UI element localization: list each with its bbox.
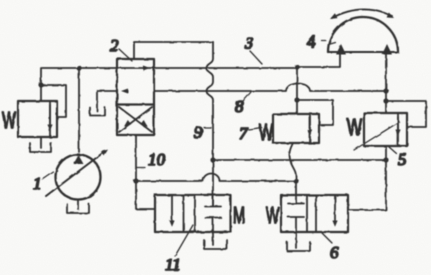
valve 5 inner vane xyxy=(397,113,399,146)
valve 6 inner divider b xyxy=(315,195,317,232)
wire: dome right down to valve 5 xyxy=(385,54,387,113)
valve 11 inner divider b xyxy=(194,195,196,232)
valve 5 arrow xyxy=(397,117,399,130)
valve 7 body xyxy=(273,114,319,143)
wire: relief valve W1 branch down xyxy=(40,68,42,101)
wire: control line y160 xyxy=(213,159,386,161)
tank under valve 11 xyxy=(204,240,227,249)
valve 11 closed port top T xyxy=(205,195,221,207)
label 6 leader xyxy=(322,233,332,243)
rotary actuator base line xyxy=(328,51,398,53)
wire: pump supply line 3 left segment with hop over vertical 213 xyxy=(42,67,297,69)
valve 2 body xyxy=(117,59,154,135)
wire: vertical to valve 7 xyxy=(296,67,298,114)
wire: valve 5 outlet down xyxy=(385,146,387,160)
oscillation double arrow xyxy=(332,9,392,18)
node junction x213 y160 xyxy=(210,157,215,162)
rotary actuator 4 dome xyxy=(328,17,398,52)
wire: pump drain to tank xyxy=(77,200,79,210)
wire: W1 drain xyxy=(40,137,42,148)
wire: to valve 11 left port xyxy=(136,181,155,209)
wire: line 3 to dome left xyxy=(297,54,340,67)
valve 5 body xyxy=(364,113,407,146)
label 7 leader xyxy=(249,128,262,130)
wire: line 8 to drain tank xyxy=(97,91,117,111)
valve 11 inner divider a xyxy=(183,195,185,232)
pump variable displacement arrow xyxy=(46,152,104,196)
valve 2 cross arrows xyxy=(119,107,152,132)
relief valve W1 body xyxy=(18,101,57,137)
node junction W1 pilot tee xyxy=(38,82,43,87)
node junction valve 7 pilot xyxy=(294,97,299,102)
valve 6 closed port top T xyxy=(288,181,304,204)
node junction pump tee xyxy=(76,65,81,70)
label 3 leader xyxy=(250,51,262,64)
valve 11 arrow xyxy=(171,195,173,220)
tank under valve 6 xyxy=(287,242,310,251)
wire: valve 5 pilot loop xyxy=(386,101,426,127)
tank drain of valve 2 xyxy=(90,108,105,116)
node junction valve 6 inlet xyxy=(293,178,298,183)
wire: W1 pilot line xyxy=(41,85,66,117)
relief valve W1 arrow down xyxy=(49,105,51,124)
node junction line 8 right xyxy=(383,88,388,93)
valve 2 arrow right on line 3 xyxy=(143,66,150,71)
wire: pump to line 3 xyxy=(78,68,80,152)
label 8 leader xyxy=(243,92,251,101)
valve 7 arrow xyxy=(309,117,311,130)
wire: valve 2 outlet down line 10 xyxy=(135,135,137,181)
label 9 leader xyxy=(204,127,211,129)
valve 11 closed port bottom T xyxy=(205,218,221,233)
label 2 leader xyxy=(119,49,132,61)
node junction valve 5 pilot xyxy=(383,98,388,103)
wire: valve 7 pilot loop xyxy=(297,100,333,125)
valve 7 inner vane xyxy=(309,114,311,143)
label 10 leader xyxy=(137,167,146,169)
valve 6 inner divider a xyxy=(306,195,308,232)
wire: valve 6 pilot from y160 xyxy=(348,160,386,210)
valve 5 adjust diagonal xyxy=(354,122,399,150)
dome left port triangle xyxy=(336,44,346,55)
wire: vertical control line x213 xyxy=(207,42,214,206)
valve 6 closed port bottom T xyxy=(288,217,304,232)
wire: valve 11 drain xyxy=(212,232,214,245)
valve 6 body xyxy=(281,195,348,232)
relief valve W1 inner vane xyxy=(49,101,51,137)
label 5 leader xyxy=(389,147,396,153)
tank under pump xyxy=(67,204,89,213)
wire: line y181 with hop xyxy=(136,174,296,181)
label 1 leader xyxy=(42,172,53,180)
wire: valve 2 pilot top xyxy=(134,42,213,59)
dome right port triangle xyxy=(382,44,392,55)
node junction line3/dome xyxy=(294,64,299,69)
pump P1 circle xyxy=(56,155,101,200)
valve 2 divider xyxy=(117,103,154,105)
node junction line 10 xyxy=(133,178,138,183)
node junction valve5 outlet xyxy=(383,157,388,162)
wire: valve 7 outlet wiggle down xyxy=(289,143,296,181)
label 11 leader xyxy=(175,225,193,256)
valve 6 arrow xyxy=(334,195,336,220)
label 4 dashes xyxy=(322,41,336,45)
tank under W1 xyxy=(30,143,51,152)
valve 2 arrow left on line 8 xyxy=(121,89,128,94)
valve 11 body xyxy=(155,195,231,232)
wire: valve 6 drain xyxy=(295,232,297,248)
wire: line 8 middle with hops xyxy=(154,84,386,91)
pump outlet solid triangle xyxy=(74,155,84,164)
